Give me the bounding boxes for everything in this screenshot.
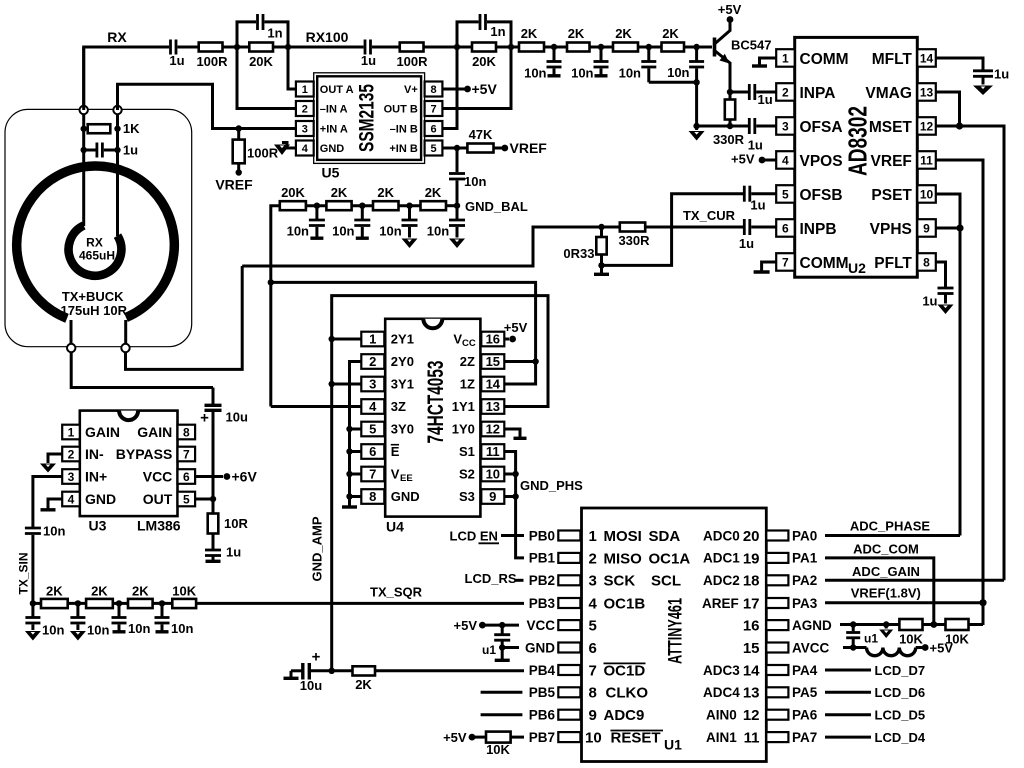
- svg-text:V+: V+: [404, 84, 418, 96]
- U2 pin 5 OFSB: [776, 185, 842, 204]
- svg-text:ADC1: ADC1: [703, 551, 740, 566]
- svg-text:13: 13: [486, 399, 500, 414]
- svg-text:1Z: 1Z: [460, 377, 475, 392]
- wire GND stub: [350, 495, 362, 498]
- node 330R bottom: [727, 123, 733, 129]
- svg-text:10n: 10n: [464, 174, 486, 189]
- wire -IN B to 20K-B left: [442, 47, 457, 129]
- svg-text:1u: 1u: [226, 545, 241, 560]
- resistor 10K divider-2: [945, 619, 983, 646]
- svg-text:u1: u1: [482, 643, 496, 657]
- svg-text:RESET: RESET: [611, 730, 661, 747]
- svg-text:7: 7: [782, 255, 789, 269]
- U1 pin 20 PA0: [766, 528, 817, 543]
- capacitor 1u zobel: [205, 545, 241, 562]
- svg-text:PA7: PA7: [792, 730, 817, 745]
- wire GND stub: [502, 646, 519, 649]
- svg-text:AIN0: AIN0: [706, 708, 737, 723]
- svg-text:10K: 10K: [172, 584, 196, 599]
- svg-text:MSET: MSET: [869, 119, 913, 136]
- U4 pin 14: [460, 377, 505, 392]
- resistor 2K bal-2: [373, 185, 421, 210]
- svg-text:COMM: COMM: [800, 51, 849, 68]
- svg-text:11: 11: [486, 444, 500, 459]
- node sin-4: [159, 600, 165, 606]
- svg-text:5: 5: [430, 143, 436, 155]
- svg-text:74HCT4053: 74HCT4053: [423, 361, 448, 444]
- wire 2Y0 ground chain: [350, 362, 362, 507]
- svg-text:10n: 10n: [128, 621, 150, 636]
- wire GND_BAL chain input: [271, 206, 280, 407]
- svg-text:4: 4: [369, 399, 377, 414]
- svg-text:GND: GND: [320, 143, 345, 155]
- svg-text:14: 14: [920, 51, 934, 65]
- svg-text:LCD_D4: LCD_D4: [875, 730, 926, 745]
- svg-text:2K: 2K: [521, 26, 538, 41]
- svg-text:GAIN: GAIN: [137, 424, 172, 440]
- svg-text:465uH: 465uH: [79, 249, 115, 263]
- svg-text:GAIN: GAIN: [85, 424, 120, 440]
- resistor 330R TX_CUR: [618, 223, 743, 249]
- MCU U1 ATTINY461 body: [582, 508, 767, 762]
- svg-text:4: 4: [68, 493, 75, 507]
- svg-text:SCL: SCL: [651, 573, 681, 590]
- svg-text:ADC_GAIN: ADC_GAIN: [852, 564, 920, 579]
- power +5V AVCC: [922, 640, 954, 655]
- svg-text:1u: 1u: [994, 67, 1009, 82]
- wire 2Z stub: [504, 360, 535, 363]
- svg-text:BC547: BC547: [731, 38, 771, 53]
- svg-text:2Y0: 2Y0: [391, 354, 414, 369]
- svg-text:S2: S2: [459, 467, 475, 482]
- U5 pin 2: [296, 101, 348, 116]
- svg-text:2K: 2K: [615, 26, 632, 41]
- svg-text:10n: 10n: [427, 224, 449, 239]
- U1 pin 6 GND: [525, 640, 760, 657]
- svg-text:10n: 10n: [524, 66, 546, 81]
- resistor 2K sin-1: [33, 584, 86, 609]
- coil TX winding (outer ring): [17, 166, 175, 344]
- U5 pin 3: [296, 121, 348, 136]
- svg-text:6: 6: [782, 221, 789, 235]
- svg-text:VREF(1.8V): VREF(1.8V): [851, 586, 921, 601]
- svg-text:+IN B: +IN B: [389, 143, 417, 155]
- U4 pin 4: [361, 399, 406, 414]
- node AGND-u1: [850, 621, 856, 627]
- capacitor 10n sin-1: [25, 603, 65, 640]
- wire PSET to VPHS column: [936, 194, 960, 536]
- capacitor 10n lp-2: [571, 47, 608, 81]
- resistor 100R input stage B: [396, 43, 472, 70]
- svg-text:18: 18: [743, 573, 760, 590]
- svg-text:9: 9: [589, 707, 597, 724]
- resistor 10K sin-4: [172, 584, 196, 609]
- svg-text:7: 7: [430, 104, 436, 116]
- U5 pin 8: [404, 82, 442, 97]
- wire LCD_RS dash: [516, 579, 524, 582]
- svg-text:330R: 330R: [713, 132, 745, 147]
- svg-text:MFLT: MFLT: [872, 51, 913, 68]
- svg-text:INPB: INPB: [800, 221, 837, 238]
- svg-text:AD8302: AD8302: [843, 106, 873, 176]
- svg-text:10n: 10n: [287, 224, 309, 239]
- U1 pin 12 PA6: [766, 708, 817, 723]
- wire OFSA node: [697, 125, 748, 128]
- svg-text:10R: 10R: [224, 516, 248, 531]
- svg-text:PB5: PB5: [529, 685, 556, 700]
- svg-text:1: 1: [369, 332, 376, 347]
- svg-text:2: 2: [369, 354, 376, 369]
- node wireB tap: [268, 279, 274, 285]
- U2 pin 3 OFSA: [776, 117, 842, 136]
- resistor 2K lp-1: [519, 26, 567, 52]
- node GND-u1 junction: [499, 644, 505, 650]
- svg-text:LCD_D7: LCD_D7: [875, 663, 926, 678]
- ground 0R33: [594, 265, 609, 274]
- ground lp chain: [689, 126, 705, 141]
- wire PA6 LCD_D5: [825, 713, 871, 716]
- wire RX100 segment: [288, 46, 364, 49]
- resistor 100R to VREF: [233, 129, 279, 173]
- capacitor 1u resonance: [81, 142, 139, 157]
- U2 pin 4 VPOS: [776, 151, 842, 170]
- capacitor 10n sin-4: [155, 603, 194, 636]
- capacitor 1u INPB: [739, 219, 776, 251]
- U4 pin 11: [459, 444, 504, 459]
- wire TX_SQR: [196, 602, 524, 605]
- wire ADC_COM: [825, 558, 934, 625]
- svg-text:10n: 10n: [571, 66, 593, 81]
- resistor 20K balance: [280, 185, 327, 210]
- U4 pin 13: [452, 399, 505, 414]
- wire 3Z input from GND_BAL chain: [271, 405, 362, 408]
- U1 pin 17 PA3: [766, 596, 817, 611]
- svg-text:8: 8: [923, 255, 930, 269]
- svg-text:S3: S3: [459, 489, 475, 504]
- capacitor 1n feedback B: [457, 14, 511, 47]
- svg-text:GND_BAL: GND_BAL: [465, 199, 528, 214]
- svg-text:1: 1: [68, 426, 75, 440]
- svg-text:VREF: VREF: [215, 177, 253, 193]
- wire PB6 stub: [481, 713, 523, 716]
- svg-text:3: 3: [68, 470, 75, 484]
- svg-text:GND: GND: [525, 640, 555, 655]
- svg-text:BYPASS: BYPASS: [116, 446, 173, 462]
- node 3Y1 junction: [329, 381, 335, 387]
- U4 pin 3: [361, 377, 414, 392]
- wire S2 stub: [504, 473, 515, 476]
- svg-text:1u: 1u: [123, 142, 138, 157]
- capacitor 10n bal-3: [379, 206, 417, 248]
- capacitor 1u PFLT: [922, 262, 953, 309]
- svg-text:10n: 10n: [43, 524, 65, 539]
- svg-text:2K: 2K: [662, 26, 679, 41]
- U4 pin 1: [361, 332, 414, 347]
- svg-text:+IN A: +IN A: [320, 124, 348, 136]
- svg-text:1: 1: [782, 51, 789, 65]
- node lp-3: [646, 44, 652, 50]
- wire ADC_GAIN: [825, 579, 1004, 582]
- svg-text:9: 9: [923, 221, 930, 235]
- U4 pin 12: [452, 422, 505, 437]
- U4 pin 16: [453, 332, 504, 349]
- svg-text:1u: 1u: [922, 294, 937, 309]
- wire MSET to ADC_GAIN column: [936, 126, 1004, 580]
- svg-text:V: V: [453, 332, 462, 347]
- svg-text:U2: U2: [848, 260, 866, 276]
- U2 pin 12 MSET: [869, 117, 936, 136]
- U3 pin 8: [137, 424, 195, 440]
- svg-text:175uH 10R: 175uH 10R: [61, 303, 128, 318]
- resistor 2K OC1D: [332, 666, 524, 692]
- wire 3Y0 stub: [350, 428, 362, 431]
- svg-text:+5V: +5V: [454, 618, 478, 633]
- inductor AVCC filter: [867, 648, 923, 656]
- node VEE junction: [346, 471, 352, 477]
- svg-text:2K: 2K: [355, 677, 372, 692]
- capacitor 10n bal-2: [332, 206, 370, 239]
- capacitor 1u OFSA: [748, 118, 776, 153]
- wire PA4 LCD_D7: [825, 669, 871, 672]
- node VREF terminal: [236, 169, 242, 175]
- node cap bus junction: [693, 79, 699, 85]
- resistor 2K lp-3: [613, 26, 662, 52]
- svg-text:4: 4: [782, 153, 789, 167]
- ground U3 pin4: [41, 499, 63, 510]
- terminal top-left: [80, 106, 88, 114]
- capacitor 10n sin-2: [70, 603, 110, 640]
- svg-text:MISO: MISO: [604, 550, 643, 567]
- svg-text:2Z: 2Z: [460, 354, 475, 369]
- svg-text:SDA: SDA: [649, 528, 681, 545]
- svg-text:INPA: INPA: [800, 85, 836, 102]
- U1 pin 19 PA1: [766, 551, 817, 566]
- node lp-2: [598, 44, 604, 50]
- U3 pin 4: [62, 491, 116, 507]
- svg-text:2: 2: [782, 85, 789, 99]
- svg-text:PB2: PB2: [529, 573, 555, 588]
- svg-text:PB4: PB4: [529, 663, 556, 678]
- svg-text:AIN1: AIN1: [706, 730, 737, 745]
- node 2Y1 junction: [329, 336, 335, 342]
- svg-text:AGND: AGND: [792, 618, 832, 633]
- svg-text:RX100: RX100: [306, 29, 349, 45]
- svg-text:3Z: 3Z: [391, 399, 406, 414]
- svg-text:+5V: +5V: [504, 320, 528, 335]
- svg-text:4: 4: [589, 595, 598, 612]
- svg-text:2: 2: [302, 104, 308, 116]
- svg-text:3Y1: 3Y1: [391, 377, 414, 392]
- ground MFLT cap: [973, 86, 993, 96]
- svg-text:GND: GND: [391, 489, 420, 504]
- U1 pin 2 PB1: [529, 550, 760, 567]
- svg-text:1u: 1u: [361, 53, 376, 68]
- U5 pin 5: [389, 141, 442, 156]
- svg-text:VREF: VREF: [871, 153, 912, 170]
- capacitor u1 AGND: [846, 625, 878, 648]
- U3 pin 2: [62, 446, 104, 462]
- U5 pin 6: [390, 121, 443, 136]
- svg-text:RX: RX: [107, 29, 127, 45]
- ground U3 pin2: [40, 454, 62, 473]
- wire RX node: [84, 47, 169, 110]
- node GND junction: [346, 493, 352, 499]
- svg-text:100R: 100R: [247, 146, 279, 161]
- capacitor 10n pin5 to GND_BAL: [449, 148, 486, 206]
- svg-text:PB6: PB6: [529, 708, 556, 723]
- svg-text:1: 1: [302, 84, 308, 96]
- svg-text:VCC: VCC: [143, 469, 173, 485]
- label LCD EN: [450, 528, 500, 543]
- svg-text:12: 12: [920, 119, 934, 133]
- svg-text:13: 13: [920, 85, 934, 99]
- svg-text:ADC9: ADC9: [604, 707, 645, 724]
- svg-text:5: 5: [782, 187, 789, 201]
- svg-text:2K: 2K: [132, 584, 149, 599]
- capacitor 10n sin-3: [112, 603, 151, 636]
- U1 pin 14 PA4: [766, 663, 817, 678]
- svg-text:AREF: AREF: [702, 596, 739, 611]
- svg-text:2K: 2K: [377, 185, 394, 200]
- svg-text:U4: U4: [386, 519, 404, 535]
- svg-text:330R: 330R: [618, 233, 650, 248]
- svg-text:14: 14: [743, 662, 760, 679]
- svg-text:OC1B: OC1B: [604, 595, 646, 612]
- svg-text:20K: 20K: [472, 54, 496, 69]
- svg-text:6: 6: [183, 470, 190, 484]
- svg-text:6: 6: [369, 444, 376, 459]
- wire VREF column: [936, 160, 983, 625]
- U5 pin 4: [296, 141, 344, 156]
- svg-text:GND_PHS: GND_PHS: [520, 478, 583, 493]
- U4 pin 8: [361, 489, 419, 504]
- node 20K-B left junction: [454, 44, 460, 50]
- svg-text:2K: 2K: [425, 185, 442, 200]
- capacitor 10n lp-3: [619, 47, 657, 82]
- ground U4 pin12: [504, 429, 526, 438]
- svg-text:IN+: IN+: [85, 469, 107, 485]
- U5 pin 7: [384, 101, 443, 116]
- svg-text:LCD_RS: LCD_RS: [465, 571, 517, 586]
- svg-text:TX_SQR: TX_SQR: [370, 585, 423, 600]
- node 2Z junction: [532, 358, 538, 364]
- power +5V U4 pin16: [504, 320, 528, 342]
- svg-text:ADC4: ADC4: [703, 685, 740, 700]
- U4 pin 10: [459, 467, 504, 482]
- svg-text:EE: EE: [400, 473, 413, 484]
- capacitor 10n bal-1: [287, 206, 325, 239]
- svg-text:5: 5: [183, 493, 190, 507]
- svg-text:7: 7: [183, 448, 190, 462]
- resistor 1K damping: [81, 121, 141, 136]
- capacitor 10n lp-1: [524, 47, 561, 81]
- capacitor 10u output coupling: [200, 388, 248, 500]
- svg-text:PA0: PA0: [792, 528, 817, 543]
- svg-text:10: 10: [486, 467, 500, 482]
- svg-text:3: 3: [369, 377, 376, 392]
- svg-text:U3: U3: [89, 518, 107, 534]
- U2 pin 8 PFLT: [874, 253, 935, 272]
- node AVCC-u1: [850, 644, 856, 650]
- svg-text:20K: 20K: [281, 185, 305, 200]
- node bal-2: [359, 203, 365, 209]
- svg-text:10: 10: [920, 187, 934, 201]
- wire lp cap bus: [649, 81, 697, 84]
- svg-text:7: 7: [589, 662, 597, 679]
- svg-text:V: V: [391, 467, 400, 482]
- svg-text:PB0: PB0: [529, 528, 555, 543]
- ground AGND: [879, 625, 893, 639]
- svg-text:10n: 10n: [332, 224, 354, 239]
- svg-text:OC1A: OC1A: [649, 550, 691, 567]
- svg-text:3: 3: [782, 119, 789, 133]
- wire TX bottom-right lead to 0R33: [126, 266, 243, 369]
- svg-text:+5V: +5V: [731, 152, 755, 167]
- svg-text:10n: 10n: [171, 621, 193, 636]
- node VMAG-MSET junction: [956, 122, 963, 129]
- node 0R33 top: [598, 224, 604, 230]
- svg-text:2: 2: [68, 448, 75, 462]
- ground U2 pin1: [752, 58, 776, 66]
- svg-text:1u: 1u: [758, 92, 773, 107]
- IC U3 LM386 body: [80, 411, 181, 534]
- power +5V PB7: [443, 730, 486, 745]
- svg-text:PA4: PA4: [792, 663, 818, 678]
- svg-text:ADC_COM: ADC_COM: [853, 542, 919, 557]
- node emitter junction: [727, 89, 733, 95]
- svg-text:13: 13: [743, 685, 760, 702]
- node bal-1: [314, 203, 320, 209]
- resistor 2K bal-3: [421, 185, 458, 210]
- svg-text:+5V: +5V: [930, 640, 954, 655]
- U3 pin 6: [143, 469, 195, 485]
- svg-text:+5V: +5V: [443, 730, 467, 745]
- wire VREF 1.8V: [825, 601, 983, 604]
- svg-text:VREF: VREF: [510, 140, 548, 156]
- svg-text:PA5: PA5: [792, 685, 818, 700]
- U1 pin 7 PB4: [529, 662, 760, 679]
- svg-text:TX_SIN: TX_SIN: [17, 552, 31, 594]
- U1 pin 10 PB7: [529, 730, 760, 747]
- wire AVCC node: [843, 646, 867, 649]
- terminal bottom-left: [67, 344, 75, 352]
- U1 pin 11 PA7: [766, 730, 817, 745]
- U2 pin 2 INPA: [776, 83, 835, 102]
- wire VEE stub: [350, 473, 362, 476]
- U4 pin 2: [361, 354, 414, 369]
- svg-text:1n: 1n: [490, 24, 505, 39]
- capacitor 1n feedback A: [237, 14, 288, 47]
- svg-text:10n: 10n: [87, 623, 109, 638]
- U1 pin 16 AGND: [766, 618, 832, 633]
- search coil assembly outline: [5, 109, 192, 346]
- svg-text:LM386: LM386: [137, 518, 181, 534]
- node GND_AMP junction: [329, 668, 335, 674]
- wire VPHS stub: [936, 227, 960, 230]
- svg-text:6: 6: [430, 124, 436, 136]
- U1 pin 8 PB5: [529, 685, 760, 702]
- U1 pin 3 PB2: [529, 573, 760, 590]
- svg-text:PB7: PB7: [529, 730, 555, 745]
- svg-text:U5: U5: [322, 165, 340, 181]
- transistor Q1 BC547: [715, 20, 772, 93]
- svg-text:3: 3: [302, 124, 308, 136]
- svg-text:u1: u1: [864, 631, 878, 645]
- svg-text:PSET: PSET: [871, 187, 912, 204]
- resistor 2K lp-2: [567, 26, 613, 52]
- capacitor 10n TX_SIN coupling: [25, 524, 66, 604]
- capacitor 1u MFLT: [936, 58, 1009, 85]
